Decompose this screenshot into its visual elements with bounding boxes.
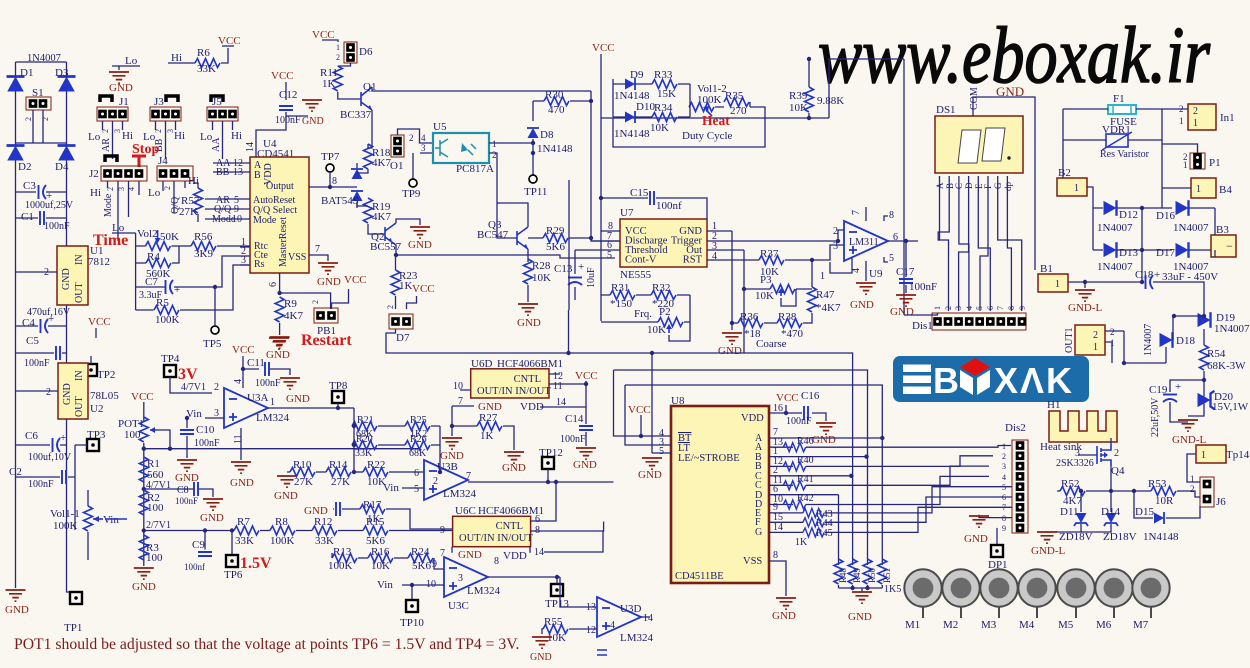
- diode D12 1N4007: [1093, 200, 1172, 234]
- svg-text:J4: J4: [158, 155, 168, 167]
- svg-text:1K5: 1K5: [884, 584, 901, 595]
- svg-text:*4K7: *4K7: [816, 302, 841, 314]
- svg-text:1: 1: [1193, 118, 1198, 129]
- resistor R52 4K7: [1057, 478, 1151, 507]
- heat block wires: [613, 79, 765, 147]
- svg-text:G: G: [755, 527, 762, 538]
- svg-text:D3: D3: [55, 67, 69, 79]
- svg-text:100nF: 100nF: [44, 221, 70, 232]
- svg-text:5: 5: [889, 253, 894, 264]
- diode D2: [7, 146, 32, 174]
- svg-text:C11: C11: [247, 357, 265, 369]
- svg-text:POT1 should be adjusted so tha: POT1 should be adjusted so that the volt…: [14, 636, 519, 653]
- svg-text:1N4148: 1N4148: [1143, 531, 1179, 543]
- svg-text:2: 2: [1110, 327, 1115, 337]
- row C pin2: [769, 465, 854, 478]
- svg-text:6: 6: [986, 306, 995, 310]
- svg-text:LM311: LM311: [849, 237, 879, 248]
- svg-text:B1: B1: [1040, 263, 1053, 275]
- capacitor C19 22uF,50V: [1149, 380, 1204, 437]
- svg-text:2: 2: [409, 133, 414, 143]
- svg-text:GND: GND: [274, 490, 298, 502]
- svg-text:4K7: 4K7: [284, 310, 303, 322]
- diode D5 BAT54S: [321, 163, 363, 208]
- svg-text:Lo: Lo: [112, 222, 125, 234]
- ground right of Q2: [408, 227, 432, 251]
- svg-text:In1: In1: [1220, 112, 1235, 124]
- svg-text:9.88K: 9.88K: [817, 95, 844, 107]
- svg-text:BC557: BC557: [370, 241, 402, 253]
- wire 4/7V1 row: [144, 448, 420, 450]
- svg-text:VCC: VCC: [776, 392, 799, 404]
- svg-text:16: 16: [773, 403, 783, 414]
- svg-text:13: 13: [586, 602, 596, 613]
- stop switch T: [132, 156, 146, 167]
- svg-text:GND: GND: [109, 82, 133, 94]
- connector J6: [1200, 477, 1226, 508]
- capacitor C9 100nf: [184, 528, 212, 572]
- ground Dis2 pin8: [964, 515, 1012, 545]
- connector Dis2: [1002, 422, 1028, 533]
- resistor R8 100K: [270, 516, 295, 547]
- diode D20 15V,1W: [1198, 391, 1249, 413]
- motor M2: [942, 569, 979, 631]
- jumper J2: [89, 156, 147, 241]
- resistor R4 560K: [136, 246, 179, 280]
- Vol2 bus vertical: [135, 233, 137, 310]
- U6C bottom row: [440, 531, 603, 562]
- svg-text:100nf: 100nf: [656, 200, 682, 212]
- svg-text:10K: 10K: [789, 102, 808, 114]
- diode D16 1N4007: [1156, 200, 1215, 234]
- svg-text:1N4007: 1N4007: [1214, 323, 1250, 335]
- varistor VDR1: [1100, 124, 1150, 160]
- svg-text:D17: D17: [1156, 247, 1175, 259]
- svg-text:TP4: TP4: [161, 353, 180, 365]
- svg-text:1K: 1K: [367, 513, 381, 525]
- svg-text:D8: D8: [540, 129, 554, 141]
- svg-text:1: 1: [820, 271, 825, 282]
- capacitor C8 100nF: [144, 482, 224, 524]
- svg-text:VSS: VSS: [288, 252, 306, 263]
- svg-text:4: 4: [421, 133, 426, 143]
- svg-text:LM324: LM324: [256, 412, 290, 424]
- diode D17 1N4007: [1156, 242, 1215, 273]
- svg-text:U7: U7: [620, 207, 634, 219]
- potentiometer POT1 100: [118, 417, 170, 561]
- svg-text:Dis2: Dis2: [1005, 422, 1026, 434]
- svg-text:14: 14: [245, 142, 256, 152]
- svg-text:GND: GND: [458, 549, 482, 561]
- power wires right: [1063, 109, 1198, 250]
- capacitor C1: [16, 211, 71, 232]
- svg-text:OUT: OUT: [74, 396, 85, 417]
- resistor R56 3K9: [191, 231, 250, 260]
- diode D10 1N4148: [614, 101, 655, 140]
- svg-text:B2: B2: [1058, 167, 1071, 179]
- U4 VSS pin7 ground: [309, 244, 341, 288]
- regulator U1 7812: [16, 245, 111, 305]
- svg-text:27K: 27K: [331, 476, 350, 488]
- svg-text:2: 2: [386, 305, 395, 309]
- svg-text:1N4148: 1N4148: [614, 128, 650, 140]
- svg-text:5: 5: [659, 446, 664, 457]
- svg-text:1N4007: 1N4007: [27, 53, 61, 64]
- testpoint TP2: [85, 356, 115, 381]
- svg-text:VCC: VCC: [575, 370, 598, 382]
- IC U4 CD4541: [250, 138, 309, 273]
- svg-text:Lo: Lo: [125, 55, 138, 67]
- svg-text:100nf: 100nf: [184, 562, 205, 572]
- svg-text:U3D: U3D: [620, 603, 641, 615]
- svg-text:100K: 100K: [328, 560, 353, 572]
- svg-text:7: 7: [996, 306, 1005, 310]
- svg-text:C14: C14: [565, 413, 584, 425]
- svg-text:GND: GND: [317, 276, 341, 288]
- svg-text:10: 10: [232, 214, 242, 225]
- left rail B: [67, 62, 77, 592]
- svg-text:1: 1: [1179, 116, 1184, 126]
- svg-text:10K: 10K: [755, 290, 774, 302]
- svg-text:1K: 1K: [480, 430, 494, 442]
- resistor R3 100: [139, 535, 163, 566]
- svg-text:2: 2: [24, 117, 33, 121]
- connector P1: [1183, 152, 1221, 170]
- resistor R34 10K: [650, 102, 677, 134]
- capacitor C12: [275, 89, 308, 126]
- svg-text:1K: 1K: [399, 280, 413, 292]
- svg-text:U3C: U3C: [448, 600, 469, 612]
- svg-text:LM324: LM324: [467, 585, 501, 597]
- diode D3: [55, 67, 76, 92]
- svg-text:+: +: [1175, 381, 1181, 393]
- ground U6D left: [440, 406, 464, 462]
- svg-text:4: 4: [1002, 473, 1006, 482]
- svg-text:100nF: 100nF: [194, 438, 220, 449]
- svg-text:U5: U5: [433, 121, 447, 133]
- svg-text:Vin: Vin: [383, 482, 399, 494]
- svg-text:9: 9: [1002, 524, 1006, 533]
- svg-text:Vin: Vin: [377, 579, 393, 591]
- VCC U6D: [575, 370, 598, 386]
- svg-text:Heat: Heat: [702, 113, 730, 128]
- svg-text:D18: D18: [1176, 335, 1195, 347]
- svg-text:78L05: 78L05: [90, 390, 119, 402]
- wire VCC bus y118: [601, 117, 829, 119]
- resistor R12 33K: [312, 516, 337, 547]
- U6C pin6 pin8 wires: [544, 482, 604, 531]
- svg-text:R8: R8: [275, 516, 288, 528]
- svg-text:OUT/IN IN/OUT: OUT/IN IN/OUT: [477, 386, 551, 397]
- opamp U3C LM324: [377, 556, 560, 612]
- svg-text:−: −: [1226, 239, 1233, 253]
- svg-text:GND: GND: [302, 116, 324, 127]
- svg-text:D1: D1: [20, 67, 33, 79]
- svg-text:Coarse: Coarse: [756, 338, 787, 350]
- svg-text:7: 7: [458, 396, 463, 407]
- svg-text:GND: GND: [517, 317, 541, 329]
- ground R27: [502, 452, 526, 474]
- svg-text:R47: R47: [816, 289, 835, 301]
- ground left bottom: [5, 590, 29, 616]
- row D down wire: [838, 495, 840, 565]
- svg-text:GND: GND: [304, 505, 328, 517]
- svg-text:2: 2: [833, 226, 838, 237]
- resistor R21 68K: [352, 415, 377, 440]
- svg-text:12: 12: [586, 625, 596, 636]
- svg-text:Hi: Hi: [171, 52, 182, 64]
- svg-text:GND: GND: [502, 462, 526, 474]
- svg-text:COM: COM: [969, 87, 980, 110]
- svg-text:100: 100: [147, 502, 164, 514]
- connector D6: [336, 42, 373, 66]
- resistor R2 100: [139, 490, 171, 533]
- bus A wire: [386, 310, 853, 565]
- svg-text:J6: J6: [1216, 496, 1226, 508]
- row D pin6: [769, 484, 839, 495]
- svg-text:1: 1: [1183, 160, 1188, 170]
- svg-text:470: 470: [548, 104, 565, 116]
- ground R55: [530, 637, 552, 663]
- svg-text:2: 2: [41, 117, 50, 121]
- svg-text:Hi: Hi: [174, 130, 185, 142]
- svg-text:4: 4: [712, 251, 717, 262]
- svg-text:+: +: [174, 284, 180, 296]
- node Lo top: [112, 55, 140, 70]
- U8 VDD pin16 VCC C16: [769, 390, 826, 427]
- svg-text:GND: GND: [772, 610, 796, 622]
- svg-text:J3: J3: [154, 96, 164, 108]
- capacitor C14 100nF: [560, 384, 593, 446]
- connector B3: [1211, 208, 1236, 257]
- svg-text:1: 1: [933, 306, 942, 310]
- svg-text:U9: U9: [869, 268, 883, 280]
- svg-text:2: 2: [336, 53, 340, 62]
- ground GND-L right: [1172, 420, 1206, 446]
- svg-text:GND: GND: [132, 581, 156, 593]
- ground C16: [812, 423, 836, 446]
- wire stub U3D: [597, 650, 607, 655]
- svg-text:68K-3W: 68K-3W: [1207, 360, 1246, 372]
- svg-text:Mode: Mode: [103, 193, 114, 217]
- svg-text:LM324: LM324: [443, 488, 477, 500]
- motor M1: [904, 569, 941, 631]
- capacitor C15 100nf: [599, 187, 707, 219]
- svg-text:R54: R54: [1207, 348, 1226, 360]
- svg-text:R48: R48: [838, 567, 848, 583]
- logo EBOXAK: [893, 356, 1089, 402]
- svg-text:3: 3: [458, 573, 463, 584]
- IC U6C HCF4066BM1: [440, 505, 544, 547]
- svg-text:R49: R49: [852, 567, 862, 583]
- svg-text:M3: M3: [981, 619, 997, 631]
- svg-text:1K: 1K: [322, 78, 336, 90]
- svg-text:DP1: DP1: [988, 559, 1008, 571]
- potentiometer Vol1-1: [50, 490, 127, 560]
- IC U6D HCF4066BM1: [453, 358, 586, 398]
- VCC left of U8: [628, 404, 651, 438]
- transistor Q2 BC557: [370, 219, 420, 257]
- IC U7 NE555: [620, 207, 707, 281]
- resistor R25 1K2: [378, 415, 440, 440]
- VCC above R6: [218, 35, 241, 47]
- svg-text:Hi: Hi: [122, 130, 133, 142]
- svg-text:3: 3: [1002, 462, 1006, 471]
- resistor R19 4K7: [357, 198, 391, 234]
- svg-text:7812: 7812: [88, 256, 110, 268]
- svg-text:Hi: Hi: [231, 130, 242, 142]
- svg-text:2: 2: [433, 476, 438, 487]
- resistor R13 100K: [328, 546, 368, 572]
- svg-text:B: B: [254, 170, 261, 181]
- svg-text:J2: J2: [89, 168, 99, 180]
- connector Tp14: [1187, 445, 1250, 494]
- svg-text:R6: R6: [197, 47, 210, 59]
- svg-text:VCC: VCC: [218, 35, 241, 47]
- svg-text:8: 8: [494, 556, 499, 567]
- svg-text:BC547: BC547: [477, 229, 509, 241]
- svg-text:Duty Cycle: Duty Cycle: [682, 130, 733, 142]
- svg-text:C16: C16: [801, 390, 820, 402]
- wire U7 gnd pin1: [731, 231, 733, 330]
- svg-text:5: 5: [607, 250, 612, 261]
- svg-text:9: 9: [1018, 306, 1027, 310]
- svg-text:GND: GND: [718, 345, 742, 357]
- svg-text:J1: J1: [119, 96, 129, 108]
- svg-text:CNTL: CNTL: [496, 521, 523, 532]
- svg-text:6: 6: [535, 514, 540, 525]
- pushbutton PB1: [311, 289, 349, 337]
- svg-text:2: 2: [1193, 106, 1198, 117]
- svg-text:7: 7: [466, 471, 471, 482]
- ground under R28: [517, 304, 541, 329]
- svg-text:4: 4: [610, 620, 615, 631]
- wire 2/7V1 row: [144, 530, 452, 532]
- transistor Q3 BC547: [477, 203, 528, 262]
- svg-text:1N4148: 1N4148: [537, 143, 573, 155]
- resistor R30 470: [533, 89, 593, 121]
- VCC for D7: [407, 283, 435, 309]
- svg-text:VCC: VCC: [88, 316, 111, 328]
- svg-text:10K: 10K: [532, 272, 551, 284]
- svg-text:100K: 100K: [53, 520, 78, 532]
- resistor R47 *4K7: [803, 260, 841, 323]
- svg-text:+: +: [1154, 269, 1160, 281]
- resistor R33 15K: [652, 69, 677, 100]
- svg-text:C12: C12: [279, 89, 297, 101]
- svg-text:1: 1: [270, 397, 275, 408]
- node Lo left of Vol2: [112, 222, 136, 234]
- svg-text:15V,1W: 15V,1W: [1212, 401, 1249, 413]
- svg-text:GND: GND: [62, 383, 73, 405]
- transistor Q1 BC337: [340, 81, 591, 148]
- svg-text:8: 8: [1007, 306, 1016, 310]
- svg-text:2: 2: [1190, 484, 1195, 494]
- connector D7: [386, 305, 413, 344]
- svg-text:OUT/IN IN/OUT: OUT/IN IN/OUT: [459, 533, 533, 544]
- svg-text:B3: B3: [1216, 224, 1229, 236]
- jumper J1: [88, 96, 133, 159]
- jumper J4: [148, 155, 199, 214]
- svg-text:Vin: Vin: [103, 514, 119, 526]
- svg-text:8: 8: [535, 525, 540, 536]
- resistor R40 row pin12: [769, 455, 993, 471]
- svg-text:33K: 33K: [197, 63, 216, 75]
- svg-text:D2: D2: [18, 161, 31, 173]
- svg-text:GND: GND: [573, 459, 597, 471]
- svg-text:7: 7: [315, 244, 320, 255]
- svg-text:IN: IN: [74, 254, 85, 265]
- svg-text:TP2: TP2: [97, 369, 115, 381]
- svg-text:3: 3: [421, 143, 426, 153]
- svg-text:100K: 100K: [155, 314, 180, 326]
- svg-text:3V: 3V: [178, 366, 198, 383]
- svg-text:TP3: TP3: [87, 429, 106, 441]
- U8 VSS pin8: [769, 550, 796, 622]
- resistor R29 5K6: [528, 225, 593, 253]
- diode D9 1N4148: [614, 69, 650, 102]
- fuse F1: [1108, 93, 1137, 128]
- svg-text:AA: AA: [211, 137, 222, 152]
- svg-text:14: 14: [643, 613, 653, 624]
- resistor R17 1K: [360, 499, 453, 529]
- connector In1: [1179, 104, 1235, 130]
- potentiometer Vol2 50K: [136, 228, 191, 251]
- svg-text:3: 3: [166, 129, 175, 133]
- svg-text:2/7V1: 2/7V1: [146, 520, 171, 531]
- svg-text:100nF: 100nF: [175, 496, 198, 506]
- diode D1: [7, 67, 34, 92]
- capacitor C2: [9, 445, 75, 530]
- svg-text:5: 5: [975, 306, 984, 310]
- svg-text:D9: D9: [630, 69, 644, 81]
- svg-text:VCC: VCC: [131, 391, 154, 403]
- resistor R6 33K: [195, 47, 228, 75]
- motor M3: [980, 569, 1017, 631]
- connector OUT1: [1064, 325, 1166, 365]
- svg-text:O1: O1: [390, 160, 403, 172]
- wire mid bridge: [16, 142, 67, 144]
- svg-text:2: 2: [154, 129, 163, 133]
- ground under R48-R51: [839, 586, 883, 623]
- svg-text:ZD18V: ZD18V: [1059, 531, 1093, 543]
- svg-text:LM324: LM324: [620, 632, 654, 644]
- capacitor C3: [16, 180, 74, 211]
- svg-text:CD4511BE: CD4511BE: [675, 571, 724, 582]
- testpoint TP9: [402, 179, 421, 200]
- svg-text:TP1: TP1: [64, 622, 82, 634]
- svg-text:7: 7: [851, 210, 862, 215]
- resistor R50: [863, 559, 877, 588]
- svg-text:2: 2: [214, 382, 219, 393]
- U4 pin6 wire: [268, 273, 331, 309]
- svg-text:R50: R50: [867, 567, 877, 583]
- svg-text:2: 2: [106, 187, 115, 191]
- svg-text:M7: M7: [1133, 619, 1149, 631]
- svg-text:U3A: U3A: [247, 392, 268, 404]
- diode D13 1N4007: [1093, 242, 1172, 273]
- svg-text:TP5: TP5: [203, 338, 222, 350]
- connector B2: [1057, 167, 1087, 196]
- svg-text:11: 11: [553, 381, 563, 392]
- svg-text:10K: 10K: [371, 560, 390, 572]
- ground C11: [280, 378, 310, 405]
- testpoint TP8: [329, 380, 348, 410]
- svg-text:B: B: [933, 360, 959, 401]
- svg-text:Restart: Restart: [301, 332, 352, 349]
- diode D18 1N4007: [1143, 314, 1206, 363]
- svg-text:D12: D12: [1119, 209, 1138, 221]
